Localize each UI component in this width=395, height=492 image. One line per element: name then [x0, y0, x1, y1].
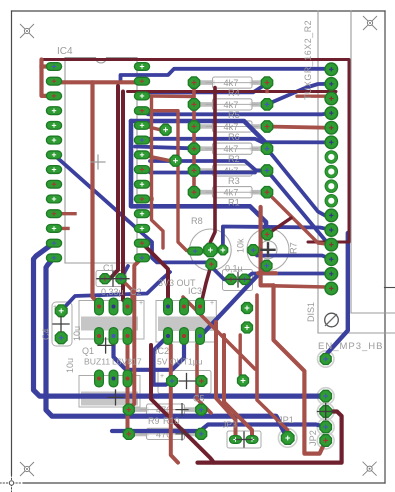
label 10u q2	[65, 358, 75, 373]
JP2 outline	[317, 388, 334, 449]
svg-text:C1: C1	[103, 263, 115, 273]
wire blue net segment 5	[131, 121, 267, 149]
label JP2	[308, 430, 318, 446]
resistor R6 body	[201, 121, 261, 132]
wire red net segment 29	[129, 258, 142, 410]
wire red net segment 36	[224, 335, 252, 440]
C3 pads	[226, 274, 250, 284]
wire blue net segment 17	[61, 272, 170, 311]
wire blue net segment 12	[54, 155, 231, 279]
IC2 pads	[164, 298, 205, 344]
wire blue net segment 2	[267, 84, 331, 105]
wire maroon net segment 20	[210, 88, 215, 251]
label JP1	[278, 415, 294, 425]
label 0.1u	[225, 264, 243, 274]
resistor R2 pads	[188, 143, 272, 154]
svg-text:R8: R8	[191, 216, 203, 226]
R10 pads	[123, 428, 206, 439]
svg-text:R4: R4	[228, 88, 240, 98]
wire red net segment 7	[297, 96, 331, 98]
label BUZ11	[84, 357, 110, 367]
EN pad outline	[318, 351, 334, 367]
wire blue net segment 21	[46, 258, 288, 439]
svg-text:R5: R5	[228, 110, 240, 120]
wire red net segment 27	[274, 285, 326, 453]
IC4 outline	[65, 58, 137, 264]
JP2 pads	[320, 390, 332, 446]
pot R8 outline	[190, 229, 232, 271]
svg-text:Q1: Q1	[82, 346, 94, 356]
svg-text:R7: R7	[289, 242, 299, 254]
resistor R1 body	[201, 187, 261, 198]
wire red net segment 2	[42, 60, 55, 96]
R10 origin cross	[176, 428, 188, 440]
wire maroon net segment 38	[151, 345, 214, 463]
label EN_MP3_HB	[318, 341, 384, 352]
label R9	[148, 416, 180, 426]
C1 cross	[97, 272, 129, 287]
svg-text:L6V817: L6V817	[112, 357, 142, 367]
svg-text:4k7: 4k7	[224, 144, 239, 154]
wire blue net segment 19	[114, 336, 185, 370]
wire maroon net segment 10	[123, 92, 128, 307]
plus mark C5	[160, 373, 164, 380]
plus mark Q1	[139, 300, 143, 307]
label IC3	[188, 286, 202, 296]
label TUXGR_16X2_R2	[303, 20, 313, 100]
label Q1	[82, 346, 94, 356]
pot R7 screw cross	[262, 243, 275, 256]
C3 cross	[225, 273, 251, 288]
resistor R6 pads	[188, 121, 272, 132]
wire red net segment 3	[42, 64, 55, 68]
label 3V3 OUT	[158, 278, 196, 288]
C4 outline	[52, 302, 72, 346]
via A	[160, 124, 171, 135]
via C	[242, 303, 253, 314]
svg-text:10u: 10u	[65, 358, 75, 373]
label JP3	[222, 420, 237, 430]
wire maroon net segment 6	[128, 92, 337, 99]
wire red net segment 32	[121, 279, 132, 300]
label R2	[228, 154, 240, 164]
label 0.33u	[101, 287, 142, 297]
svg-text:JP2: JP2	[308, 430, 318, 446]
label 10u cap	[72, 326, 82, 341]
wire blue net segment 13	[223, 227, 331, 246]
svg-text:0,33µ: 0,33µ	[101, 287, 124, 297]
wire red net segment 16	[152, 96, 164, 248]
wire red net segment 4	[54, 80, 142, 84]
svg-text:+: +	[139, 300, 143, 307]
label L6V817	[112, 357, 142, 367]
label R7	[289, 242, 299, 254]
svg-text:R10: R10	[163, 416, 180, 426]
C5 pads	[167, 376, 207, 387]
wire blue net segment 9	[150, 171, 255, 175]
resistor R1 pads	[188, 187, 272, 198]
mounting hole DIS1	[325, 313, 339, 327]
JP1 outline	[278, 429, 297, 448]
svg-text:BUZ11: BUZ11	[84, 357, 110, 367]
svg-text:4k7: 4k7	[224, 78, 239, 88]
wire blue net segment 22	[34, 243, 326, 396]
wire red net segment 19	[142, 111, 195, 251]
svg-text:IC4: IC4	[57, 46, 73, 57]
pot R7 outline	[247, 229, 289, 271]
wire blue net segment 1	[121, 69, 332, 80]
wire red net segment 28	[274, 286, 332, 289]
C3 outline	[223, 270, 253, 291]
label R8	[191, 216, 203, 226]
fiducial top-left	[20, 24, 34, 38]
JP3 pads	[230, 436, 259, 444]
wire maroon net segment 1	[42, 60, 350, 243]
wire blue net segment 3	[148, 83, 267, 93]
wire red net segment 15	[142, 94, 194, 98]
IC4 origin cross	[91, 155, 105, 169]
via B	[170, 155, 181, 166]
wire maroon net segment 9	[106, 86, 119, 279]
resistor R4 pads	[188, 77, 272, 88]
wire red net segment 34	[257, 295, 288, 438]
wire blue net segment 18	[121, 266, 128, 279]
wire red net segment 23	[54, 212, 75, 215]
svg-text:JP1: JP1	[278, 415, 294, 425]
wire red net segment 17	[142, 125, 166, 129]
resistor R5 pads	[188, 99, 272, 110]
svg-text:5V OUT: 5V OUT	[157, 357, 189, 367]
wire red net segment 30	[126, 336, 130, 434]
label C4	[41, 328, 51, 340]
wire blue net segment 23	[112, 425, 326, 432]
label 5V OUT	[157, 357, 203, 367]
svg-text:EN_MP3_HB: EN_MP3_HB	[318, 341, 384, 352]
Q2 tab	[79, 376, 140, 408]
label C5	[193, 394, 205, 404]
svg-text:C2: C2	[130, 287, 142, 297]
label R1	[228, 198, 240, 208]
wire red net segment 11	[267, 127, 331, 128]
wire red net segment 25	[261, 207, 274, 285]
wire blue net segment 16	[200, 266, 267, 337]
IC2 tab	[156, 301, 216, 343]
wire blue net segment 20	[154, 336, 173, 385]
wire red net segment 5	[93, 82, 100, 306]
wire red net segment 22	[142, 197, 152, 200]
svg-text:C4: C4	[41, 328, 51, 340]
svg-text:1µu: 1µu	[188, 357, 203, 367]
svg-text:IC2: IC2	[155, 346, 169, 356]
C1 pads	[100, 274, 126, 284]
svg-text:0,1µ: 0,1µ	[225, 264, 243, 274]
wire blue net segment 10	[135, 147, 194, 149]
wire red net segment 40	[171, 345, 178, 463]
JP3 cross	[236, 432, 252, 447]
svg-text:TUXGR_16X2_R2: TUXGR_16X2_R2	[303, 20, 313, 100]
fiducial bottom-left	[20, 462, 34, 476]
label R3	[228, 176, 240, 186]
JP2 origin cross	[318, 404, 335, 420]
wire maroon net segment 41	[198, 412, 342, 463]
wire maroon net segment 31	[142, 243, 168, 302]
fiducial bottom-right	[363, 462, 377, 476]
C5 outline	[158, 371, 211, 394]
resistor R2 body	[201, 143, 261, 154]
C4 pads	[55, 305, 67, 344]
wire blue net segment 4	[142, 111, 331, 115]
svg-text:10u: 10u	[72, 326, 82, 341]
IC4 pads right column	[134, 63, 149, 262]
label DIS1	[306, 302, 316, 322]
wire red net segment 18	[142, 155, 176, 161]
wire blue net segment 8	[150, 161, 331, 245]
pot R8 pads	[188, 243, 228, 269]
svg-text:JP3: JP3	[222, 420, 237, 430]
svg-text:+: +	[53, 304, 57, 311]
Q2 cross	[108, 390, 123, 405]
Q1 cross	[98, 338, 113, 353]
svg-text:IC3: IC3	[188, 286, 202, 296]
C1 outline	[96, 271, 126, 287]
svg-text:4k7: 4k7	[224, 100, 239, 110]
wire red net segment 33	[183, 297, 255, 369]
resistor R10 body	[135, 428, 195, 439]
C5 cross	[179, 374, 195, 389]
svg-text:4k7: 4k7	[224, 122, 239, 132]
wire blue net segment 7	[143, 139, 331, 143]
C4 cross	[53, 317, 69, 332]
wire maroon net segment 21	[200, 264, 211, 306]
label C1	[103, 263, 115, 273]
svg-text:+: +	[210, 300, 214, 307]
R9 origin cross	[176, 404, 188, 416]
IC4 pads left column	[46, 63, 61, 262]
wire red net segment 26	[258, 271, 276, 275]
wire maroon net segment 13	[267, 218, 291, 234]
label R5	[228, 110, 240, 120]
plus mark C4	[53, 304, 57, 311]
via E	[238, 375, 249, 386]
wire red net segment 39	[197, 344, 211, 413]
svg-text:R3: R3	[228, 176, 240, 186]
svg-text:+: +	[160, 373, 164, 380]
via D	[242, 322, 253, 333]
svg-text:R1: R1	[228, 198, 240, 208]
resistor R3 body	[201, 165, 261, 176]
svg-text:DIS1: DIS1	[306, 302, 316, 322]
wire red net segment 35	[216, 322, 236, 440]
wire red net segment 8	[265, 83, 268, 92]
svg-text:R2: R2	[228, 154, 240, 164]
EN pad	[320, 354, 331, 365]
JP1 pad	[281, 432, 294, 445]
resistor R3 pads	[188, 165, 272, 176]
label IC4	[57, 46, 73, 57]
R9 pads	[123, 404, 206, 415]
wire blue net segment 15	[245, 274, 332, 280]
label 10k	[236, 238, 246, 253]
svg-text:R6: R6	[228, 132, 240, 142]
resistor R5 body	[201, 99, 261, 110]
Q1 tab	[79, 301, 144, 340]
plus mark IC2	[210, 300, 214, 307]
label IC2	[155, 346, 169, 356]
svg-text:R9: R9	[148, 416, 160, 426]
Q1 pads	[95, 298, 132, 344]
wire blue net segment 24	[326, 233, 348, 358]
wire blue net segment 11	[267, 149, 331, 216]
svg-text:10k: 10k	[236, 238, 246, 253]
wire blue net segment 14	[253, 250, 331, 259]
wire red net segment 14	[192, 83, 196, 193]
wire red net segment 24	[54, 227, 68, 230]
pot R7 pads	[248, 229, 273, 271]
svg-text:C5: C5	[193, 394, 205, 404]
fiducial top-right	[363, 16, 377, 30]
label R4	[228, 88, 240, 98]
wire red net segment 12	[267, 192, 331, 244]
Q2 pads	[95, 370, 132, 387]
svg-text:4k7: 4k7	[224, 188, 239, 198]
resistor R4 body	[201, 77, 261, 88]
JP3 outline	[227, 431, 261, 448]
label R6	[228, 132, 240, 142]
wire red net segment 37	[240, 335, 243, 381]
wire blue net segment 6	[131, 121, 266, 228]
resistor R9 body	[135, 404, 195, 415]
DIS1 header pads	[325, 63, 338, 295]
